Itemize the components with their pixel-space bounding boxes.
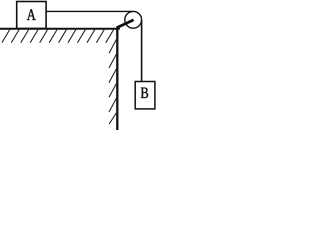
table surface hatching	[2, 30, 114, 43]
label B	[141, 88, 148, 98]
string vertical to B	[141, 20, 143, 82]
string horizontal from A to pulley	[46, 10, 133, 12]
pulley wheel	[125, 11, 142, 28]
block B	[135, 82, 155, 109]
wall hatching	[109, 38, 117, 124]
table vertical edge (wall)	[116, 28, 118, 130]
table surface	[0, 28, 120, 30]
label A	[27, 9, 36, 20]
pulley bracket	[117, 20, 134, 28]
block A	[17, 2, 46, 29]
